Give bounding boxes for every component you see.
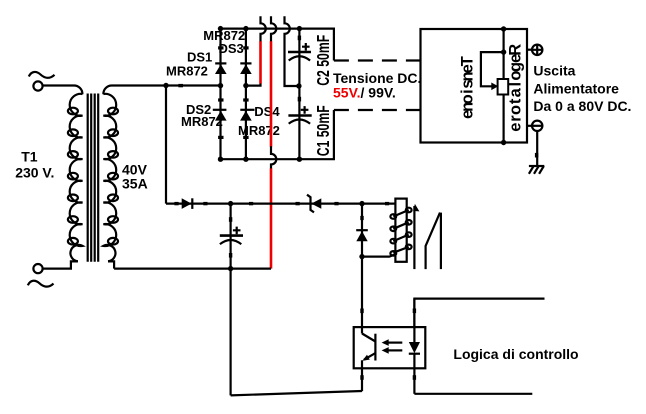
transformer T1 primary loop crossovers xyxy=(68,108,78,245)
svg-text:DS3: DS3 xyxy=(219,41,244,56)
earth ground xyxy=(529,166,544,174)
bridge left arm xyxy=(219,29,221,160)
optocoupler phototransistor xyxy=(362,334,375,392)
capacitor column wire xyxy=(298,29,300,160)
node rail bottom xyxy=(501,140,506,145)
node: left arm AC xyxy=(218,83,223,88)
svg-text:Uscita: Uscita xyxy=(533,63,575,79)
capacitor C3 column wire xyxy=(230,204,232,396)
output terminal minus xyxy=(527,121,542,131)
pin tick xyxy=(178,84,183,87)
relay switch second contact xyxy=(440,213,442,270)
node: top bus left xyxy=(218,26,223,31)
diode DS3 xyxy=(240,63,252,74)
svg-text:DS1: DS1 xyxy=(187,50,212,65)
node: right arm AC xyxy=(243,83,248,88)
svg-text:a: a xyxy=(507,87,525,97)
pin ticks on bridge arms xyxy=(218,46,248,139)
node: flyback bottom xyxy=(359,254,364,259)
wire logic top xyxy=(414,299,544,328)
wire relay branch down to optocoupler xyxy=(361,257,363,334)
capacitor C1 xyxy=(288,106,311,124)
svg-text:g: g xyxy=(507,62,525,72)
svg-text:Logica di controllo: Logica di controllo xyxy=(453,346,578,362)
red wire 2 upper xyxy=(270,41,273,146)
svg-text:230 V.: 230 V. xyxy=(15,165,54,181)
bottom AC wire xyxy=(114,268,271,270)
wire red1 to right arm xyxy=(246,84,261,86)
diode D5 xyxy=(182,198,193,209)
svg-text:DS4: DS4 xyxy=(254,104,280,119)
potentiometer body xyxy=(498,79,509,95)
AC input terminal top xyxy=(29,72,55,91)
node rail top xyxy=(501,26,506,31)
relay switch blade xyxy=(426,213,440,270)
relay coil turns xyxy=(390,208,411,256)
pin ticks middle rail xyxy=(174,202,389,205)
transformer T1 secondary winding xyxy=(103,94,116,261)
node: top bus right arm xyxy=(243,26,248,31)
pin ticks optocoupler xyxy=(360,309,416,380)
svg-text:o: o xyxy=(507,105,525,115)
middle rail wire xyxy=(166,203,395,205)
svg-text:MR872: MR872 xyxy=(166,63,208,78)
feedback wire with wiper arrow xyxy=(481,52,504,86)
flyback diode D7 xyxy=(356,204,368,257)
transformer T1 core xyxy=(88,94,99,262)
transformer T1 primary winding xyxy=(70,94,83,261)
wire bottom left slant xyxy=(231,391,362,395)
node rail feedback xyxy=(501,49,506,54)
ground wire xyxy=(536,131,538,166)
dashed link bottom to regulator box xyxy=(334,109,421,111)
node: capacitor midpoint xyxy=(296,83,301,88)
svg-text:C2 50mF: C2 50mF xyxy=(314,35,334,86)
hop of wire 2 over bottom bus xyxy=(271,146,276,168)
svg-text:C1 50mF: C1 50mF xyxy=(314,105,334,156)
top DC bus xyxy=(221,29,334,61)
breaker stub 1 with hop over bus xyxy=(261,16,266,41)
svg-text:T1: T1 xyxy=(21,149,38,165)
regulator rail xyxy=(503,29,505,143)
wire primary bottom to terminal xyxy=(43,261,78,268)
optocoupler box xyxy=(354,327,426,368)
zener diode D6 xyxy=(307,195,321,213)
svg-text:MR872: MR872 xyxy=(238,123,280,138)
wire AC top terminal to primary xyxy=(43,85,83,94)
bottom DC bus xyxy=(221,110,334,159)
optocoupler LED xyxy=(409,299,420,394)
relay coil body xyxy=(395,199,406,262)
svg-text:r: r xyxy=(507,115,525,122)
svg-text:35A: 35A xyxy=(122,176,148,192)
regulator box xyxy=(421,29,528,143)
svg-text:i: i xyxy=(459,89,477,94)
diode DS1 xyxy=(215,63,227,74)
relay switch fixed contact with arrow xyxy=(413,204,419,269)
wire logic bottom right xyxy=(414,393,532,395)
pin tick xyxy=(360,309,363,314)
transformer T1 secondary loop crossovers xyxy=(108,108,118,245)
capacitor C3 xyxy=(220,227,243,245)
svg-text:Da 0 a 80V DC.: Da 0 a 80V DC. xyxy=(533,98,631,114)
svg-text:Alimentatore: Alimentatore xyxy=(533,81,619,97)
diode DS4 xyxy=(240,110,254,121)
svg-text:s: s xyxy=(459,79,477,88)
svg-text:e: e xyxy=(507,54,525,63)
output terminal plus xyxy=(527,45,542,55)
wire secondary bottom to bottom AC wire xyxy=(108,261,114,268)
breaker stub 2 with hop over bus xyxy=(271,16,276,41)
optocoupler light arrows xyxy=(382,339,403,353)
node: secondary top junction xyxy=(163,83,168,88)
pin ticks C2 xyxy=(298,36,301,41)
red wire 2 lower xyxy=(270,168,273,268)
AC input terminal bottom xyxy=(28,264,54,287)
svg-text:55V./ 99V.: 55V./ 99V. xyxy=(333,85,396,101)
svg-text:l: l xyxy=(507,82,525,87)
pin ticks C1 xyxy=(298,97,301,102)
wire secondary top into top AC wire xyxy=(103,85,220,94)
breaker stub 3 wire to capacitor midpoint xyxy=(285,16,299,86)
red wire 1 xyxy=(259,41,262,83)
svg-text:o: o xyxy=(507,71,525,81)
svg-text:MR872: MR872 xyxy=(181,114,223,129)
label Tensione (vertical) xyxy=(459,56,477,119)
node: bottom AC wire C3 xyxy=(228,266,233,271)
capacitor C2 xyxy=(288,43,311,61)
wire flyback bottom to relay coil xyxy=(362,254,396,256)
pin ticks C3 xyxy=(229,217,232,257)
diode DS2 xyxy=(213,110,227,121)
dashed link top to regulator box xyxy=(334,59,421,61)
node: bottom bus left xyxy=(218,157,223,162)
node: bottom bus capacitor column xyxy=(297,157,302,162)
node: middle rail relay branch xyxy=(359,201,364,206)
node: middle rail C3 xyxy=(228,201,233,206)
svg-text:e: e xyxy=(459,110,477,119)
node: top bus capacitor column xyxy=(297,26,302,31)
pin tick ground wire xyxy=(535,153,538,158)
bridge right arm xyxy=(245,29,247,160)
node: bottom bus right arm xyxy=(243,157,248,162)
label Regolatore (vertical) xyxy=(507,44,525,132)
wire drop to middle rail xyxy=(165,86,167,204)
svg-text:t: t xyxy=(507,98,525,104)
svg-text:e: e xyxy=(507,123,525,132)
